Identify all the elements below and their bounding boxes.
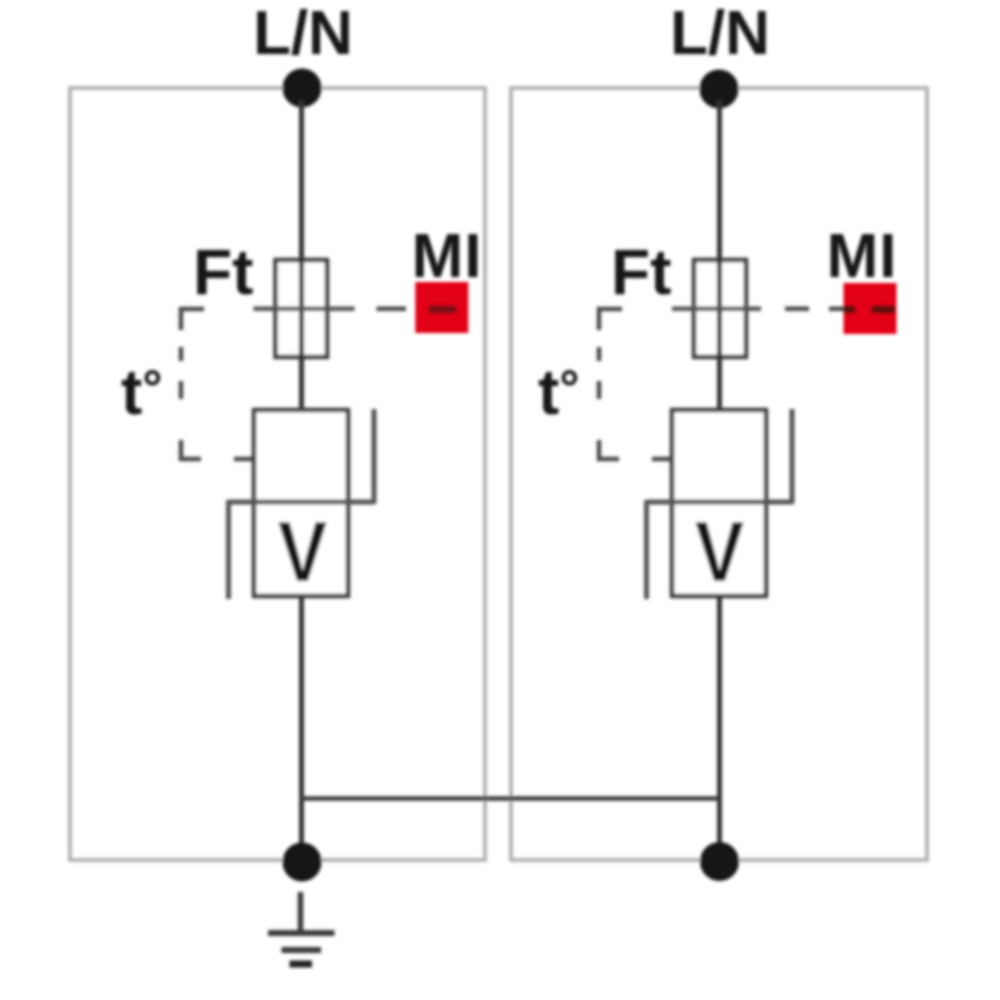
dashed thermal link bracket top corner (left) bbox=[181, 309, 204, 330]
dashed thermal link vertical dash 1 (left) bbox=[179, 347, 184, 361]
dashed thermal link stub into disconnector (left) bbox=[234, 457, 255, 462]
svg-text:Ft: Ft bbox=[611, 236, 671, 308]
module enclosure right bbox=[511, 88, 927, 860]
svg-text:Ft: Ft bbox=[193, 236, 253, 308]
disconnector blade horizontal (left) bbox=[229, 500, 375, 505]
disconnector box (right) bbox=[672, 410, 766, 502]
wire: through fuse vertical (right) bbox=[717, 258, 722, 359]
wire: dashed segment 2 fuse to MI (right) bbox=[829, 307, 844, 312]
disconnector blade right vertical (right) bbox=[790, 409, 795, 504]
MI indicator red square (left) bbox=[415, 282, 468, 333]
ground: bar 2 bbox=[282, 947, 322, 953]
MI indicator red square (right) bbox=[844, 283, 897, 334]
ground: stub wire bbox=[298, 892, 304, 934]
wire: top terminal to fuse (right) bbox=[717, 100, 722, 262]
svg-text:V: V bbox=[278, 505, 327, 600]
fuse Ft (left) bbox=[276, 260, 328, 357]
svg-text:L/N: L/N bbox=[670, 0, 770, 68]
wire: dashed segment 1 fuse to MI (right) bbox=[785, 307, 809, 312]
dashed thermal link vertical dash 2 (right) bbox=[597, 381, 602, 399]
wire: fuse to varistor (right) bbox=[717, 357, 722, 412]
svg-text:MI: MI bbox=[827, 222, 898, 291]
ground: bar 3 bbox=[290, 961, 313, 968]
node: top terminal dot (left) bbox=[283, 69, 322, 108]
svg-text:L/N: L/N bbox=[253, 0, 353, 68]
disconnector box (left) bbox=[254, 410, 348, 502]
node: top terminal dot (right) bbox=[700, 70, 739, 109]
svg-text:t°: t° bbox=[538, 356, 579, 428]
disconnector blade right vertical (left) bbox=[372, 409, 377, 504]
wire: bottom interconnect between modules bbox=[302, 796, 720, 801]
wire: fuse to varistor (left) bbox=[299, 357, 304, 412]
wire: top terminal to fuse (left) bbox=[299, 100, 304, 262]
varistor box V (right) bbox=[672, 502, 766, 596]
ground: bar 1 bbox=[268, 930, 335, 936]
svg-text:t°: t° bbox=[121, 356, 162, 428]
dashed thermal link bracket top corner (right) bbox=[599, 309, 622, 330]
dashed thermal link vertical dash 1 (right) bbox=[597, 347, 602, 361]
disconnector blade left vertical (left) bbox=[226, 500, 231, 599]
dashed thermal link vertical dash 2 (left) bbox=[179, 381, 184, 399]
svg-text:MI: MI bbox=[412, 222, 483, 291]
wire: horizontal through fuse (right) bbox=[672, 307, 761, 312]
MI indicator inner dash (left) bbox=[429, 306, 457, 314]
wire: horizontal through fuse (left) bbox=[254, 307, 355, 312]
dashed thermal link stub into disconnector (right) bbox=[652, 457, 673, 462]
wire: through fuse vertical (left) bbox=[299, 258, 304, 359]
dashed thermal link bottom corner (right) bbox=[599, 440, 619, 459]
dashed thermal link bottom corner (left) bbox=[181, 440, 201, 459]
wire: varistor to bottom node (left) bbox=[299, 596, 304, 862]
module enclosure left bbox=[70, 88, 485, 860]
node: bottom terminal dot (left) bbox=[283, 843, 322, 882]
disconnector blade horizontal (right) bbox=[647, 500, 793, 505]
MI indicator inner dash a (right) bbox=[844, 306, 856, 314]
wire: dashed segment fuse to MI (left) bbox=[377, 307, 407, 312]
wire: varistor to bottom node (right) bbox=[717, 596, 722, 862]
svg-text:V: V bbox=[695, 505, 744, 600]
node: bottom terminal dot (right) bbox=[700, 842, 739, 881]
fuse Ft (right) bbox=[694, 260, 746, 357]
MI indicator inner dash b (right) bbox=[872, 306, 896, 314]
varistor box V (left) bbox=[254, 502, 348, 596]
disconnector blade left vertical (right) bbox=[644, 500, 649, 599]
